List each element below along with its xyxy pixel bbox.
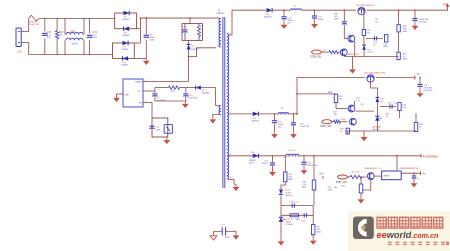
- svg-text:1M: 1M: [59, 35, 62, 37]
- svg-text:1N4007: 1N4007: [121, 49, 129, 51]
- svg-text:470uF 16V: 470uF 16V: [307, 165, 317, 167]
- svg-text:DRAIN: DRAIN: [135, 81, 142, 84]
- svg-text:1k: 1k: [386, 116, 388, 118]
- svg-text:KIA8050S(Y,L.T): KIA8050S(Y,L.T): [364, 167, 381, 170]
- svg-text:2: 2: [217, 46, 218, 48]
- svg-text:MMBT2222: MMBT2222: [348, 54, 360, 56]
- svg-text:(L.R.201): (L.R.201): [419, 22, 428, 24]
- svg-text:SB2040: SB2040: [252, 120, 260, 122]
- svg-text:1N4007: 1N4007: [122, 35, 130, 37]
- svg-text:1N4007: 1N4007: [122, 19, 130, 21]
- svg-text:STBY_ON: STBY_ON: [320, 126, 331, 128]
- svg-text:47uF: 47uF: [156, 129, 161, 131]
- svg-text:12V: 12V: [319, 173, 324, 176]
- svg-text:0.1u: 0.1u: [393, 103, 397, 105]
- svg-text:1u: 1u: [417, 178, 419, 180]
- svg-text:470uF 16V: 470uF 16V: [300, 126, 310, 128]
- svg-text:EER28L: EER28L: [217, 13, 226, 15]
- svg-text:30mH: 30mH: [72, 44, 78, 46]
- svg-text:1N4148: 1N4148: [202, 93, 210, 95]
- svg-text:1k: 1k: [340, 131, 342, 133]
- svg-text:5: 5: [145, 80, 146, 82]
- svg-text:GND: GND: [125, 95, 130, 97]
- svg-text:CN1: CN1: [17, 50, 22, 53]
- svg-text:STBY_ON: STBY_ON: [310, 57, 321, 59]
- svg-text:(L.R.28.1): (L.R.28.1): [423, 90, 432, 92]
- svg-text:STBY_ON: STBY_ON: [336, 182, 347, 184]
- svg-text:(BP4+4): (BP4+4): [285, 195, 293, 197]
- svg-text:PO3606: PO3606: [285, 224, 293, 226]
- svg-text:TE-11: TE-11: [367, 52, 373, 54]
- svg-text:1u: 1u: [373, 45, 375, 47]
- svg-text:KIA78R08API(P-N): KIA78R08API(P-N): [400, 167, 419, 170]
- svg-text:VCC: VCC: [137, 91, 142, 93]
- svg-text:4v standby: 4v standby: [422, 155, 438, 159]
- svg-text:eeworld.com.cn: eeworld.com.cn: [377, 230, 440, 240]
- svg-text:1N4007: 1N4007: [121, 65, 129, 67]
- svg-text:78R08: 78R08: [383, 176, 390, 178]
- svg-text:12V: 12V: [443, 2, 448, 6]
- svg-text:470uF: 470uF: [318, 19, 324, 21]
- svg-text:L4 4.7u: L4 4.7u: [288, 150, 296, 152]
- svg-text:400V: 400V: [149, 39, 155, 41]
- svg-text:2.2u: 2.2u: [375, 22, 379, 24]
- svg-text:7v: 7v: [416, 72, 420, 76]
- svg-text:4: 4: [230, 177, 231, 179]
- svg-text:1: 1: [217, 16, 218, 18]
- svg-text:0.1u: 0.1u: [356, 100, 360, 102]
- svg-text:FUSE_1A: FUSE_1A: [29, 23, 39, 26]
- svg-text:47uF 28V: 47uF 28V: [188, 98, 197, 100]
- svg-text:12V: 12V: [328, 92, 333, 94]
- svg-text:Q30 KIA4280A(OP-N): Q30 KIA4280A(OP-N): [364, 71, 386, 74]
- svg-text:R41 10k: R41 10k: [352, 171, 361, 173]
- svg-text:470uF: 470uF: [262, 163, 268, 165]
- svg-text:RX2: RX2: [59, 32, 64, 34]
- svg-text:KSC945(C945)TIP: KSC945(C945)TIP: [356, 5, 375, 7]
- svg-text:SB5150: SB5150: [264, 16, 272, 18]
- svg-text:4v: 4v: [422, 171, 426, 175]
- svg-text:4: 4: [145, 101, 146, 103]
- svg-text:1N4007: 1N4007: [191, 49, 199, 51]
- svg-text:C24 0.1u: C24 0.1u: [289, 202, 298, 204]
